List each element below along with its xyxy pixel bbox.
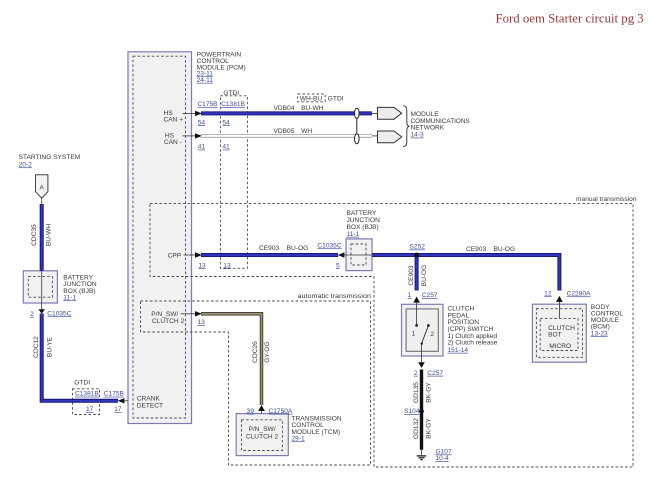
svg-text:CLUTCH 2: CLUTCH 2 — [246, 434, 279, 441]
svg-text:10-4: 10-4 — [436, 455, 450, 462]
svg-text:CDC35: CDC35 — [31, 224, 38, 246]
svg-text:CAN -: CAN - — [164, 139, 182, 146]
svg-text:41: 41 — [222, 144, 230, 151]
svg-text:P/N_SW/: P/N_SW/ — [151, 311, 178, 318]
svg-text:MODULE: MODULE — [411, 111, 440, 118]
svg-text:GTDI: GTDI — [223, 90, 239, 97]
svg-text:13-23: 13-23 — [591, 330, 608, 337]
svg-text:17: 17 — [86, 406, 94, 413]
svg-text:Ford oem Starter circuit pg 3: Ford oem Starter circuit pg 3 — [496, 11, 644, 25]
svg-text:2: 2 — [430, 331, 434, 338]
svg-text:VDB05: VDB05 — [274, 128, 295, 135]
svg-text:17: 17 — [114, 406, 122, 413]
svg-text:P/N_SW/: P/N_SW/ — [248, 426, 275, 433]
svg-text:GTDI: GTDI — [328, 96, 344, 103]
svg-text:C175B: C175B — [104, 391, 125, 398]
svg-text:54: 54 — [222, 119, 230, 126]
svg-text:S252: S252 — [410, 244, 426, 251]
svg-text:14-3: 14-3 — [411, 132, 425, 139]
svg-text:BU-OG: BU-OG — [494, 246, 516, 253]
svg-text:1: 1 — [412, 331, 416, 338]
svg-text:12: 12 — [544, 290, 552, 297]
svg-text:11-1: 11-1 — [63, 294, 76, 301]
svg-text:BU-WH: BU-WH — [301, 105, 324, 112]
svg-text:13: 13 — [198, 319, 206, 326]
svg-text:CAN +: CAN + — [164, 116, 184, 123]
svg-text:BU-YE: BU-YE — [47, 336, 54, 357]
svg-text:MICRO: MICRO — [549, 343, 571, 350]
svg-text:BU-OG: BU-OG — [287, 245, 309, 252]
svg-text:BU-OG: BU-OG — [421, 265, 428, 287]
svg-text:manual transmission: manual transmission — [576, 196, 637, 203]
svg-text:5: 5 — [336, 262, 340, 269]
svg-text:39: 39 — [247, 408, 255, 415]
svg-text:C257: C257 — [427, 370, 443, 377]
svg-text:A: A — [39, 185, 44, 192]
svg-text:BU-WH: BU-WH — [46, 224, 53, 247]
svg-text:CPP: CPP — [168, 252, 182, 259]
svg-text:29-1: 29-1 — [292, 435, 306, 442]
svg-text:20-2: 20-2 — [19, 161, 33, 168]
svg-text:GD132: GD132 — [413, 418, 420, 439]
svg-text:WH-BU: WH-BU — [300, 96, 323, 103]
svg-text:C1035C: C1035C — [47, 310, 71, 317]
svg-text:GD135: GD135 — [413, 382, 420, 403]
svg-text:41: 41 — [198, 144, 206, 151]
svg-text:13: 13 — [223, 262, 231, 269]
svg-text:1: 1 — [408, 292, 412, 299]
svg-text:C1381B: C1381B — [221, 101, 245, 108]
svg-text:C175B: C175B — [197, 101, 218, 108]
svg-text:CRANK: CRANK — [137, 396, 161, 403]
svg-text:2: 2 — [414, 370, 418, 377]
svg-text:CE903: CE903 — [259, 245, 279, 252]
svg-text:BK-GY: BK-GY — [426, 382, 433, 403]
svg-text:C1750A: C1750A — [269, 408, 293, 415]
svg-text:11-1: 11-1 — [347, 231, 360, 238]
svg-text:DETECT: DETECT — [137, 403, 163, 410]
svg-text:BK-GY: BK-GY — [426, 418, 433, 439]
svg-text:151-14: 151-14 — [448, 347, 469, 354]
svg-text:CDC26: CDC26 — [252, 341, 259, 363]
svg-text:GY-OG: GY-OG — [264, 341, 271, 362]
svg-text:13: 13 — [198, 262, 206, 269]
svg-text:2: 2 — [30, 311, 34, 318]
svg-text:JUNCTION: JUNCTION — [347, 217, 381, 224]
svg-text:C1381B: C1381B — [75, 391, 99, 398]
svg-text:C257: C257 — [422, 292, 438, 299]
svg-text:STARTING SYSTEM: STARTING SYSTEM — [19, 154, 81, 161]
svg-text:automatic transmission: automatic transmission — [298, 293, 372, 300]
svg-text:NETWORK: NETWORK — [411, 125, 445, 132]
svg-text:C2280A: C2280A — [567, 290, 591, 297]
svg-text:CDC12: CDC12 — [33, 336, 40, 358]
svg-text:CE903: CE903 — [408, 265, 415, 285]
svg-text:VDB04: VDB04 — [274, 105, 295, 112]
svg-text:C1035C: C1035C — [317, 242, 341, 249]
svg-text:2) Clutch release: 2) Clutch release — [448, 340, 498, 347]
svg-text:CLUTCH 2: CLUTCH 2 — [152, 318, 185, 325]
svg-text:BOT: BOT — [548, 332, 562, 339]
svg-text:S104: S104 — [404, 408, 420, 415]
svg-text:CE903: CE903 — [466, 246, 486, 253]
svg-text:54: 54 — [198, 119, 206, 126]
svg-text:24-11: 24-11 — [197, 77, 214, 84]
svg-text:WH: WH — [301, 128, 312, 135]
svg-text:GTDI: GTDI — [74, 380, 90, 387]
